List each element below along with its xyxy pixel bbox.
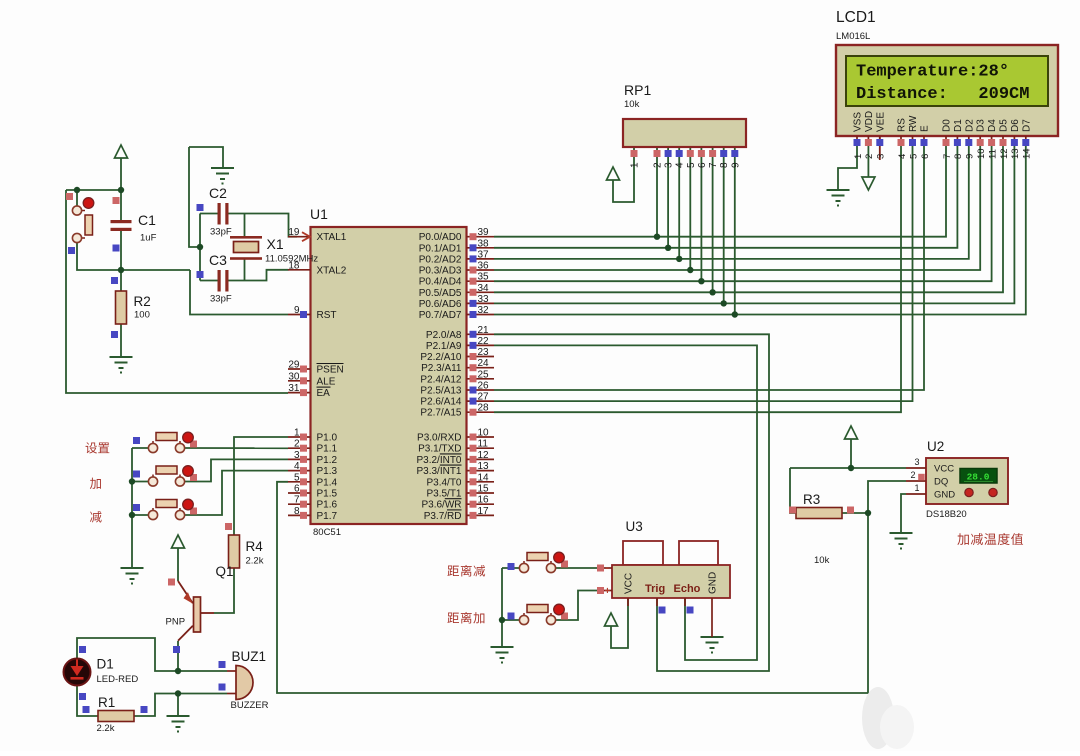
svg-text:33: 33 — [478, 294, 490, 305]
ground (LCD VSS) — [827, 189, 850, 191]
module U3 body — [612, 541, 730, 598]
svg-text:P3.6/WR: P3.6/WR — [421, 500, 461, 511]
LCD1 pin 8 (D1) — [953, 119, 964, 159]
U1 pin 39 (P0.0/AD0) — [419, 227, 494, 243]
C1 state squares — [113, 197, 120, 204]
svg-text:34: 34 — [478, 283, 490, 294]
LCD1 pin 13 (D6) — [1010, 119, 1021, 159]
svg-text:RS: RS — [897, 118, 908, 132]
U1 pin 23 (P2.2/A10) — [420, 347, 494, 363]
svg-text:U2: U2 — [927, 439, 944, 454]
svg-text:Q1: Q1 — [216, 564, 234, 579]
svg-text:P0.3/AD3: P0.3/AD3 — [419, 266, 462, 277]
wire D1 top to buzzer — [77, 638, 227, 671]
svg-text:P3.5/T1: P3.5/T1 — [426, 489, 461, 500]
U1 pin 8 (P1.7) — [288, 506, 338, 522]
svg-text:Distance: 209CM: Distance: 209CM — [856, 85, 1029, 104]
svg-text:80C51: 80C51 — [313, 527, 341, 538]
wire buzzer ground stem — [177, 694, 179, 717]
RP1 pin 4 — [676, 150, 683, 157]
U1 pin 37 (P0.2/AD2) — [419, 249, 494, 265]
svg-text:VSS: VSS — [853, 112, 864, 132]
U1 pin 22 (P2.1/A9) — [426, 336, 494, 352]
LCD1 pin 2 (VDD) — [864, 111, 875, 159]
RP1 pin 5 — [687, 150, 694, 157]
svg-text:1: 1 — [294, 428, 300, 439]
wire U2 VCC — [790, 467, 906, 469]
wire LCD VSS to ground — [838, 139, 857, 190]
C2 state square — [197, 204, 204, 211]
junction RP1-P0.2 — [676, 256, 682, 262]
svg-text:26: 26 — [478, 381, 490, 392]
wire to C2 left plate — [200, 213, 218, 215]
junction — [118, 267, 124, 273]
wire LCD VEE stub — [879, 136, 881, 160]
power arrow (reset circuit) — [115, 145, 128, 158]
wire button1 left — [132, 447, 149, 449]
U1 pin 1 (P1.0) — [288, 428, 338, 444]
label shezhi (set) — [86, 442, 98, 453]
svg-text:13: 13 — [1010, 148, 1021, 159]
wire P1.0 to R4 — [234, 437, 288, 535]
svg-text:17: 17 — [478, 506, 490, 517]
svg-text:R1: R1 — [98, 695, 115, 710]
D1 state squares — [79, 646, 86, 653]
svg-text:GND: GND — [934, 490, 955, 501]
svg-text:4: 4 — [294, 461, 300, 472]
wire R1 to buzzer — [134, 694, 227, 717]
wire U3 VCC — [611, 598, 628, 648]
wire VCC to reset node — [120, 158, 122, 190]
junction RP1-P0.1 — [665, 245, 671, 251]
U1 pin 24 (P2.3/A11) — [421, 358, 494, 374]
svg-text:11: 11 — [987, 149, 998, 159]
wire LCD D4 to P0.4 — [494, 139, 992, 281]
power arrow (U3 VCC) — [605, 613, 618, 626]
svg-text:6: 6 — [294, 484, 300, 495]
U1 pin 15 (P3.5/T1) — [426, 484, 494, 500]
junction RP1-P0.4 — [698, 278, 704, 284]
svg-text:11: 11 — [478, 439, 489, 450]
wire button1 to P1.1 — [185, 447, 289, 449]
wire node to C1 top — [120, 190, 122, 220]
svg-text:9: 9 — [294, 305, 300, 316]
svg-text:+: + — [605, 586, 611, 597]
svg-text:R3: R3 — [803, 492, 820, 507]
svg-text:10k: 10k — [814, 555, 830, 566]
svg-text:6: 6 — [920, 154, 931, 159]
svg-text:5: 5 — [294, 472, 300, 483]
svg-text:28: 28 — [478, 403, 490, 414]
ground (caps) — [211, 167, 234, 169]
svg-text:D5: D5 — [999, 119, 1010, 132]
wire R3 right junction — [842, 512, 868, 514]
svg-text:9: 9 — [965, 154, 976, 159]
svg-text:RST: RST — [317, 310, 337, 321]
svg-text:3: 3 — [664, 162, 675, 168]
svg-text:19: 19 — [288, 227, 300, 238]
svg-text:37: 37 — [478, 249, 490, 260]
ground (U3 GND) — [701, 636, 724, 638]
U2 pin DQ — [906, 480, 926, 482]
svg-text:P1.1: P1.1 — [317, 444, 338, 455]
display LCD1 LM016L — [836, 45, 1058, 136]
svg-text:16: 16 — [478, 495, 490, 506]
U1 pin 3 (P1.2) — [288, 450, 338, 466]
svg-text:E: E — [920, 125, 931, 132]
svg-text:8: 8 — [953, 154, 964, 159]
svg-text:VCC: VCC — [624, 573, 635, 594]
wire R4 to Q1 base — [214, 568, 234, 613]
ground (U2) — [890, 532, 913, 534]
wire D1 bottom to R1 — [77, 685, 98, 716]
svg-text:P0.7/AD7: P0.7/AD7 — [419, 310, 462, 321]
svg-text:P1.3: P1.3 — [317, 466, 338, 477]
svg-text:2.2k: 2.2k — [246, 556, 264, 567]
U1 pin 16 (P3.6/WR) — [421, 495, 494, 511]
resistor R4 — [229, 535, 240, 568]
junction — [129, 478, 135, 484]
svg-text:27: 27 — [478, 392, 490, 403]
wire U2 VCC arrow stem — [850, 439, 852, 468]
junction — [848, 465, 854, 471]
wire node to RST pin — [190, 270, 288, 315]
LCD1 pin 5 (RW) — [908, 115, 919, 159]
svg-text:15: 15 — [478, 484, 490, 495]
wire to reset button top — [76, 190, 78, 206]
push button PLUS — [148, 466, 197, 486]
svg-text:VEE: VEE — [875, 112, 886, 132]
LCD1 pin 10 (D3) — [976, 119, 987, 159]
wire LCD D1 to P0.1 — [494, 139, 957, 248]
svg-text:VDD: VDD — [864, 111, 875, 132]
wire RP1 pin6 to P0.4 — [700, 147, 702, 281]
wire EA tie — [66, 190, 288, 393]
U1 pin 25 (P2.4/A12) — [420, 369, 494, 385]
wire R2 bottom to ground — [120, 324, 122, 357]
wire Q1 emitter feed — [177, 548, 179, 581]
svg-text:1: 1 — [914, 483, 919, 493]
watermark — [862, 687, 894, 749]
power arrow (U2 VCC) — [845, 426, 858, 439]
wire LCD VDD power — [867, 139, 869, 177]
wire LCD D2 to P0.2 — [494, 139, 969, 259]
svg-text:RW: RW — [908, 115, 919, 132]
svg-text:ALE: ALE — [317, 376, 336, 387]
wire LCD RW to P2.6 — [494, 139, 913, 401]
svg-text:P0.6/AD6: P0.6/AD6 — [419, 299, 462, 310]
svg-text:P2.4/A12: P2.4/A12 — [420, 374, 462, 385]
transistor Q1 (PNP) — [178, 581, 214, 641]
U1 pin 14 (P3.4/T0) — [426, 472, 494, 488]
svg-text:29: 29 — [288, 360, 300, 371]
wire distance buttons rail — [501, 568, 503, 647]
wire U2 ground — [901, 494, 906, 533]
U1 pin 28 (P2.7/A15) — [420, 403, 494, 419]
wire button4 left — [502, 567, 520, 569]
U1 pin 18 (XTAL2) — [288, 260, 347, 276]
reset push button (vertical) — [66, 193, 94, 254]
wire C3 right to XTAL2 — [229, 270, 289, 281]
svg-text:LCD1: LCD1 — [836, 9, 876, 26]
label jian (minus) — [90, 511, 102, 523]
svg-text:7: 7 — [942, 154, 953, 159]
svg-text:D2: D2 — [964, 119, 975, 132]
svg-text:GND: GND — [708, 572, 719, 594]
svg-text:X1: X1 — [267, 236, 284, 252]
svg-text:2: 2 — [864, 154, 875, 159]
svg-text:1: 1 — [630, 162, 641, 168]
wire button5 to U3 plus — [556, 591, 598, 621]
junction — [118, 187, 124, 193]
svg-text:DQ: DQ — [934, 477, 948, 488]
push button SET — [148, 432, 197, 452]
svg-text:P2.3/A11: P2.3/A11 — [421, 363, 462, 374]
LCD1 pin 11 (D4) — [987, 119, 998, 159]
wire button4 to U3 minus — [556, 567, 598, 569]
U2 pin VCC — [906, 467, 926, 469]
svg-text:U1: U1 — [310, 206, 328, 222]
resistor pack RP1 — [623, 119, 746, 147]
wire caps ground net top — [189, 147, 223, 168]
svg-text:BUZZER: BUZZER — [231, 700, 269, 711]
svg-text:25: 25 — [478, 369, 490, 380]
svg-text:3: 3 — [294, 450, 300, 461]
svg-text:P3.7/RD: P3.7/RD — [424, 511, 462, 522]
svg-text:10: 10 — [976, 148, 987, 159]
svg-text:P3.4/T0: P3.4/T0 — [426, 477, 461, 488]
svg-text:D6: D6 — [1010, 119, 1021, 132]
resistor R2 — [116, 291, 127, 324]
R2 state squares — [111, 277, 118, 284]
svg-text:R4: R4 — [246, 539, 264, 554]
label julijia (distance plus) — [447, 613, 459, 623]
wire RP1 pin1 to power — [613, 147, 634, 202]
wire RP1 pin4 to P0.2 — [678, 147, 680, 259]
svg-text:33pF: 33pF — [210, 294, 232, 305]
wire RP1 pin7 to P0.5 — [712, 147, 714, 292]
wire LCD RS to P2.7 — [494, 139, 901, 412]
svg-text:100: 100 — [134, 310, 150, 321]
svg-text:P1.4: P1.4 — [317, 477, 338, 488]
wire LCD E to P2.5 — [494, 139, 924, 390]
svg-text:4: 4 — [897, 154, 908, 159]
U1 pin 31 (EA) — [288, 383, 331, 399]
push button DIST-MINUS — [519, 552, 568, 572]
U1 pin 33 (P0.6/AD6) — [419, 294, 494, 310]
svg-text:PNP: PNP — [166, 617, 186, 628]
svg-text:1: 1 — [853, 154, 864, 159]
svg-text:XTAL2: XTAL2 — [317, 265, 347, 276]
svg-text:13: 13 — [478, 461, 490, 472]
svg-text:D1: D1 — [953, 119, 964, 132]
C3 state square — [197, 271, 204, 278]
U1 pin 34 (P0.5/AD5) — [419, 283, 494, 299]
svg-text:P0.4/AD4: P0.4/AD4 — [419, 277, 462, 288]
svg-text:21: 21 — [478, 325, 490, 336]
U1 pin 29 (PSEN) — [288, 360, 344, 376]
label jiajian wendu zhi (temperature adjust) — [957, 533, 969, 545]
U1 pin 38 (P0.1/AD1) — [419, 238, 494, 254]
wire C2 left to C3 left — [199, 214, 201, 281]
svg-text:2: 2 — [653, 162, 664, 168]
junction — [499, 617, 505, 623]
wire buttons ground rail — [131, 448, 133, 568]
LCD1 pin 12 (D5) — [999, 119, 1010, 159]
wire button2 to P1.2 — [185, 459, 289, 481]
capacitor C1 — [111, 220, 132, 231]
junction — [74, 187, 80, 193]
RP1 pin 7 — [709, 150, 716, 157]
junction — [175, 690, 181, 696]
U1 pin 9 (RST) — [288, 305, 337, 321]
power arrow down (LCD VDD) — [862, 177, 875, 190]
svg-text:P2.0/A8: P2.0/A8 — [426, 330, 462, 341]
U3 plus pin — [604, 590, 612, 592]
wire RP1 pin8 to P0.6 — [723, 147, 725, 303]
U3 bottom pin stubs — [627, 598, 629, 606]
U1 pin 12 (P3.2/INT0) — [416, 450, 494, 466]
svg-text:7: 7 — [708, 162, 719, 168]
svg-text:Trig: Trig — [645, 583, 665, 595]
junction — [175, 668, 181, 674]
wire caps ground net vertical — [189, 147, 200, 247]
U2 pin GND — [906, 493, 926, 495]
label jia (plus) — [90, 478, 101, 489]
wire to C3 left plate — [200, 280, 218, 282]
svg-text:C3: C3 — [209, 252, 227, 268]
svg-text:LM016L: LM016L — [836, 31, 870, 42]
svg-text:C2: C2 — [209, 185, 227, 201]
svg-text:14: 14 — [1022, 148, 1033, 159]
RP1 pin 1 — [631, 150, 638, 157]
svg-text:D0: D0 — [942, 119, 953, 132]
U1 pin 2 (P1.1) — [288, 439, 338, 455]
svg-text:23: 23 — [478, 347, 490, 358]
U1 pin 7 (P1.6) — [288, 495, 338, 511]
svg-text:2: 2 — [294, 439, 300, 450]
LCD1 pin 3 (VEE) — [875, 112, 886, 159]
svg-text:P1.5: P1.5 — [317, 489, 338, 500]
U1 pin 36 (P0.3/AD3) — [419, 261, 494, 277]
U1 pin 32 (P0.7/AD7) — [419, 305, 494, 321]
svg-text:1uF: 1uF — [140, 233, 157, 244]
U3 state squares — [659, 607, 666, 614]
junction RP1-P0.7 — [732, 311, 738, 317]
RP1 pin 8 — [720, 150, 727, 157]
push button MINUS — [148, 499, 197, 519]
LCD1 pin 7 (D0) — [942, 119, 953, 159]
svg-text:22: 22 — [478, 336, 490, 347]
U1 pin 13 (P3.3/INT1) — [416, 461, 494, 477]
wire DQ to U2 — [868, 481, 906, 513]
U3 minus pin — [604, 567, 612, 569]
U1 pin 26 (P2.5/A13) — [420, 381, 494, 397]
R3 state squares — [789, 507, 796, 514]
svg-text:6: 6 — [697, 162, 708, 168]
svg-text:12: 12 — [478, 450, 490, 461]
junction RP1-P0.5 — [709, 289, 715, 295]
LCD1 pin 1 (VSS) — [853, 112, 864, 159]
U1 pin 35 (P0.4/AD4) — [419, 272, 494, 288]
svg-text:P1.7: P1.7 — [317, 511, 338, 522]
U1 pin 27 (P2.6/A14) — [420, 392, 494, 408]
svg-text:3: 3 — [914, 457, 919, 467]
label julijian (distance minus) — [447, 566, 459, 576]
wire LCD D6 to P0.6 — [494, 139, 1014, 303]
svg-text:5: 5 — [686, 162, 697, 168]
svg-text:35: 35 — [478, 272, 490, 283]
svg-text:4: 4 — [675, 162, 686, 168]
wire RP1 pin3 to P0.1 — [667, 147, 669, 248]
svg-text:Temperature:28°: Temperature:28° — [856, 63, 1009, 82]
button state squares — [133, 437, 140, 444]
svg-text:24: 24 — [478, 358, 490, 369]
RP1 pin 6 — [698, 150, 705, 157]
U2 indicator circles — [965, 488, 973, 496]
R4 state square — [225, 523, 232, 530]
U1 pin 5 (P1.4) — [288, 472, 338, 488]
svg-text:P1.0: P1.0 — [317, 433, 338, 444]
U1 pin 30 (ALE) — [288, 371, 336, 387]
LCD1 pin 4 (RS) — [897, 118, 908, 159]
wire VCC to R3 left — [790, 468, 796, 513]
LCD1 pin 9 (D2) — [964, 119, 975, 159]
U1 pin 4 (P1.3) — [288, 461, 338, 477]
junction RP1-P0.3 — [687, 267, 693, 273]
wire LCD D7 to P0.7 — [494, 139, 1026, 315]
svg-text:P3.2/INT0: P3.2/INT0 — [416, 455, 461, 466]
wire reset top horizontal — [66, 189, 121, 191]
crystal X1 — [230, 236, 262, 260]
wire C1 bottom to node — [120, 231, 122, 270]
ground (buzzer) — [167, 715, 190, 717]
svg-text:Echo: Echo — [674, 583, 701, 595]
push button DIST-PLUS — [519, 604, 568, 624]
wire C2 right to XTAL1 — [229, 214, 298, 237]
resistor R1 — [98, 711, 134, 722]
LCD1 pin 6 (E) — [920, 125, 931, 159]
svg-text:P3.0/RXD: P3.0/RXD — [417, 433, 461, 444]
svg-text:30: 30 — [288, 371, 300, 382]
capacitor C3 — [218, 270, 229, 292]
wire reset button bottom to node — [77, 242, 190, 270]
svg-text:28.0: 28.0 — [967, 472, 990, 483]
RP1 pin 2 — [654, 150, 661, 157]
svg-text:DS18B20: DS18B20 — [926, 509, 967, 520]
svg-text:P0.5/AD5: P0.5/AD5 — [419, 288, 462, 299]
junction — [865, 510, 871, 516]
wire LCD D5 to P0.5 — [494, 139, 1003, 292]
wire LCD D0 to P0.0 — [494, 139, 946, 237]
junction RP1-P0.6 — [721, 300, 727, 306]
wire RP1 pin5 to P0.3 — [689, 147, 691, 270]
svg-text:U3: U3 — [626, 519, 643, 534]
svg-text:2.2k: 2.2k — [97, 723, 115, 734]
svg-text:RP1: RP1 — [624, 82, 651, 98]
junction — [197, 244, 203, 250]
svg-text:P3.1/TXD: P3.1/TXD — [418, 444, 461, 455]
ground (distance buttons) — [491, 646, 514, 648]
wire U3 Trig to P2.0 — [494, 334, 769, 671]
svg-text:P3.3/INT1: P3.3/INT1 — [416, 466, 461, 477]
svg-text:P2.2/A10: P2.2/A10 — [420, 352, 462, 363]
svg-text:XTAL1: XTAL1 — [317, 232, 347, 243]
resistor R3 — [796, 508, 842, 519]
svg-text:PSEN: PSEN — [317, 365, 344, 376]
svg-text:D3: D3 — [976, 119, 987, 132]
svg-text:P2.5/A13: P2.5/A13 — [420, 386, 462, 397]
